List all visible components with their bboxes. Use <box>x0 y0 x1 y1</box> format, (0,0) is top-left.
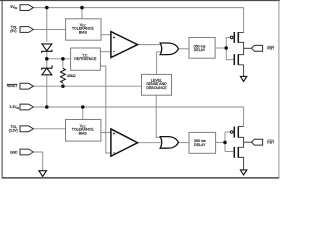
svg-text:RST: RST <box>267 47 275 51</box>
svg-text:(3.3V): (3.3V) <box>9 129 18 133</box>
svg-text:GND: GND <box>10 151 18 155</box>
svg-text:BIAS: BIAS <box>79 131 88 135</box>
svg-text:RESET: RESET <box>7 84 18 88</box>
svg-text:DELAY: DELAY <box>194 143 206 147</box>
svg-text:RST: RST <box>267 140 275 144</box>
svg-text:40kΩ: 40kΩ <box>67 74 76 78</box>
svg-text:DEBOUNCE: DEBOUNCE <box>146 86 167 90</box>
svg-text:(5V): (5V) <box>10 29 16 33</box>
svg-text:REFERENCE: REFERENCE <box>74 57 97 61</box>
svg-text:DELAY: DELAY <box>194 48 206 52</box>
svg-text:BIAS: BIAS <box>79 30 88 34</box>
